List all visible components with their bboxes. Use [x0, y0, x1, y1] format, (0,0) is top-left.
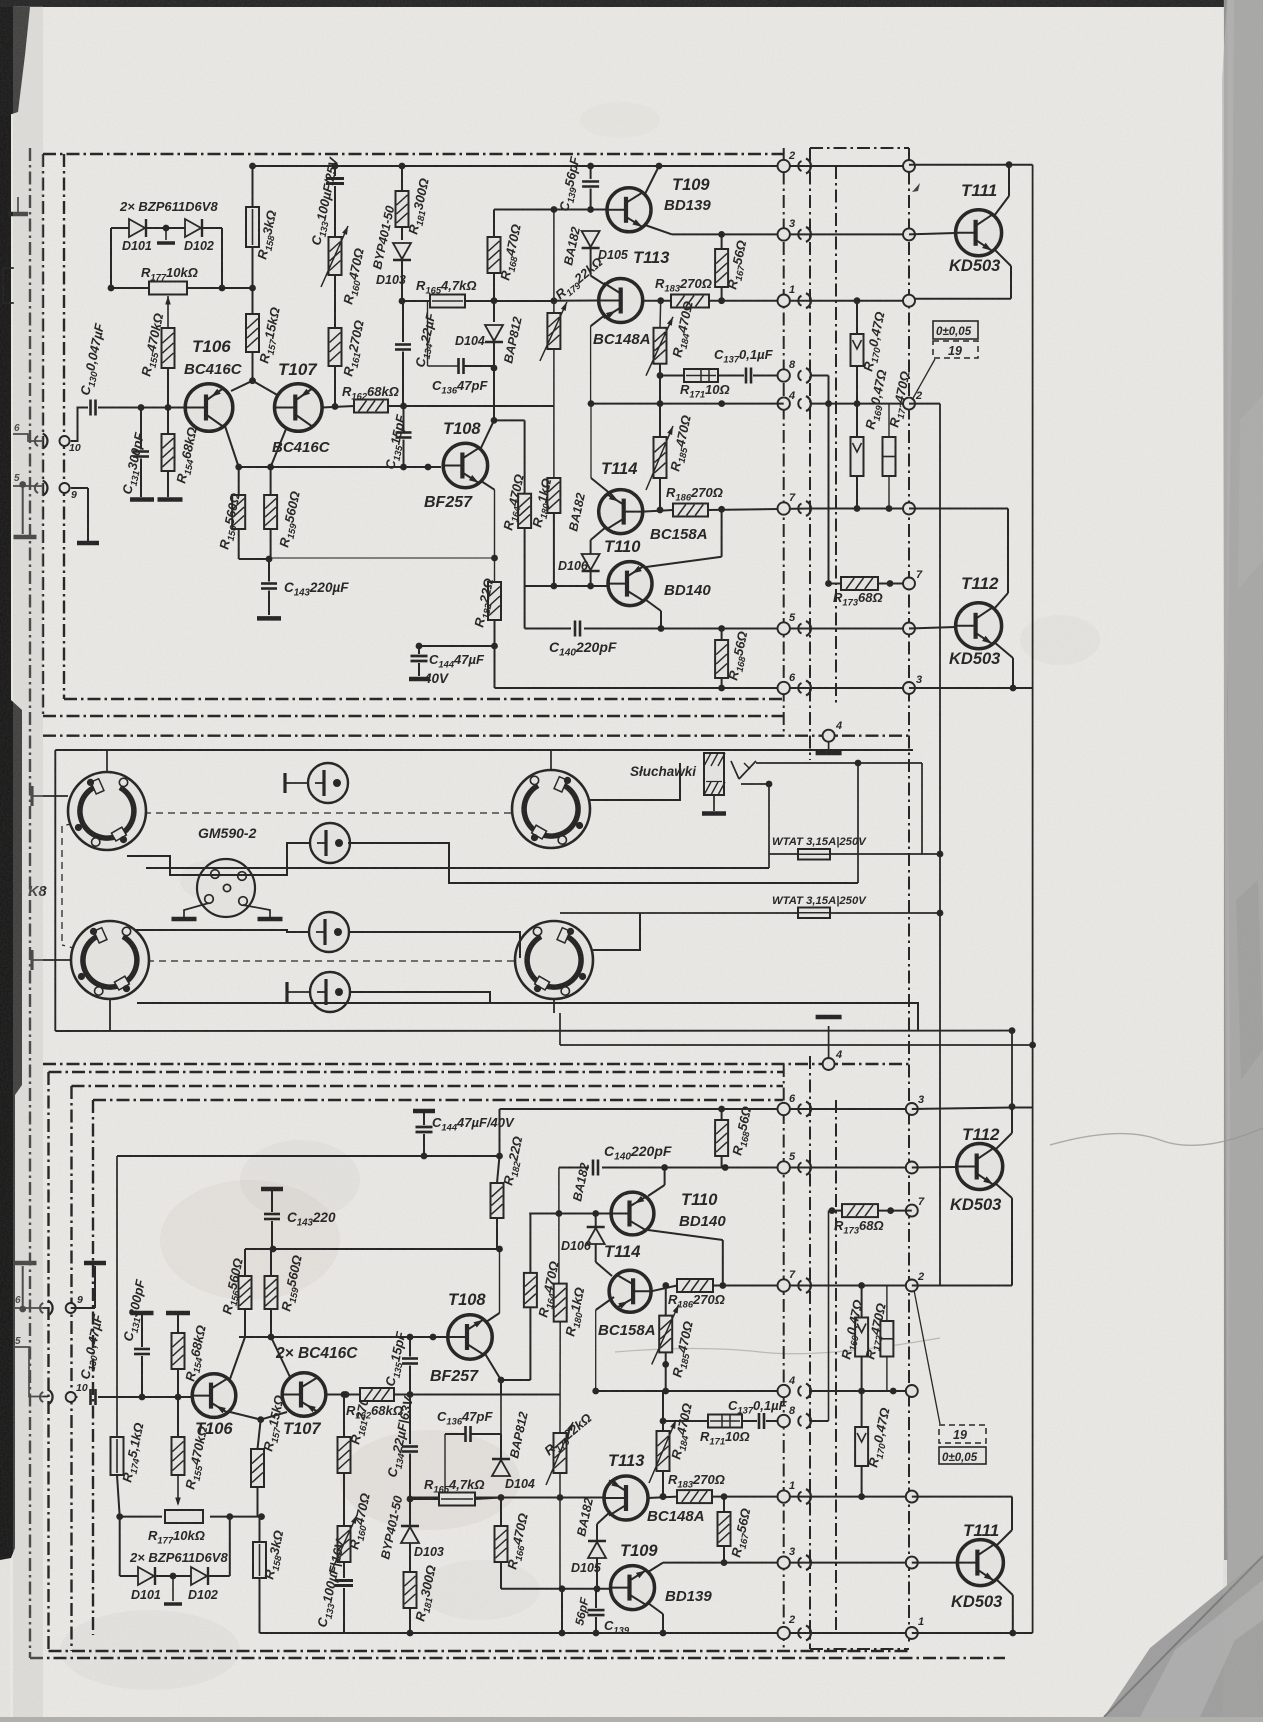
resistor R186 270 bottom [677, 1279, 713, 1292]
wire R177 left to D101 [111, 287, 149, 289]
row1 wire bottom right part [810, 1496, 909, 1498]
wire rows to open circles [810, 165, 909, 167]
emitter bus to T108 base [239, 466, 441, 468]
transistor T108 BF257 [443, 443, 487, 487]
diode D105 BA182 [582, 231, 600, 247]
transistor T111 KD503 bottom [957, 1540, 1003, 1586]
paper crease middle right [1050, 1128, 1263, 1145]
wire R156 R159 junction [239, 558, 271, 560]
resistor R156 560 bottom [239, 1276, 252, 1309]
wire T113 base row [554, 300, 599, 302]
resistor R165 4.7k bottom [439, 1493, 475, 1506]
row 1 pins [778, 295, 790, 307]
wire D104 node to T108b collector [500, 1395, 502, 1435]
row 6 pins [778, 682, 790, 694]
resistor R158 3k [252, 247, 254, 314]
row3 bottom right part [810, 1562, 909, 1564]
open circles bottom [906, 1103, 918, 1115]
wire D102 to R177 right [203, 227, 222, 229]
wire T114b collector [651, 1286, 677, 1292]
speaker bus vertical x940 [939, 404, 941, 1286]
wire R162b node [410, 1394, 560, 1396]
diode D106 bottom [595, 1214, 597, 1227]
tolerance box 19 bottom [939, 1425, 986, 1443]
wire DIN3 to jack row [590, 763, 680, 800]
zener D101 bottom [119, 1517, 121, 1576]
wire pin9b lead-in [14, 1307, 49, 1309]
resistor R158 3k bottom [253, 1542, 266, 1578]
wire T107 emitter [271, 429, 286, 467]
row6 corner bottom [499, 1109, 501, 1156]
DIN 5pin connector GM590-2 [197, 859, 255, 917]
ground pin9b right [84, 1261, 106, 1266]
wire R162 to node [388, 405, 555, 407]
capacitor C133 100uF 25V [332, 163, 339, 170]
potentiometer R177 10k bottom [165, 1510, 203, 1523]
wire R157 to T106 collector node [252, 352, 254, 381]
row 4 wire bottom [596, 1390, 784, 1392]
transistor T109 BD139 bottom [611, 1566, 655, 1610]
wire row2 to right bus [909, 164, 1033, 166]
capacitor C140 220pF [574, 621, 577, 637]
wire C144 row bottom [117, 1155, 500, 1157]
capacitor C137 0.1uF bottom [742, 1420, 757, 1422]
pin 3 row wire [672, 233, 810, 235]
wire T112b base [912, 1166, 957, 1169]
phono connector 3 [309, 912, 349, 952]
resistor R172 470 bottom [880, 1321, 893, 1357]
wire T109 base feed [494, 209, 606, 211]
trimmer R185 470 bottom [659, 1316, 672, 1353]
wire C143 node to R182 [269, 557, 495, 559]
row 4 wire [591, 403, 784, 405]
resistor R167 56 [715, 249, 728, 287]
wire R164b link [501, 1379, 530, 1381]
capacitor C133 bottom 100uF/16V [343, 1562, 345, 1578]
resistor R169 0.47 bottom [855, 1318, 868, 1357]
bottom channel frame outer [43, 1063, 909, 1065]
resistor R182 22 bottom [491, 1183, 504, 1218]
diode D103 BYP401-50 [399, 163, 406, 170]
wire jack ring down [768, 784, 770, 868]
wiper arrow R155 into R177 [167, 296, 169, 328]
wire T106b emitter join [230, 1337, 245, 1379]
input wire bottom [98, 1396, 192, 1398]
resistor R159 560 bottom [265, 1276, 278, 1309]
top channel module bottom dash-dot with pin 4 [43, 735, 909, 737]
resistor R167 56 bottom [718, 1512, 731, 1546]
wire base row bottom R165 T113 [410, 1497, 604, 1499]
capacitor C134 22uF [402, 301, 404, 342]
capacitor C131 bottom 300pF [131, 1311, 154, 1316]
wire DIN2 to phono3 [134, 930, 309, 932]
wire T111 emitter loop [994, 249, 1011, 266]
resistor R183 270 [671, 295, 709, 308]
capacitor C130 0.047uF [89, 400, 92, 416]
row 4 pins [778, 397, 790, 409]
scanner black left strip [0, 7, 22, 1560]
wire R171 to C137 [718, 375, 744, 377]
resistor R180 1k [547, 478, 560, 513]
row 3 pins [778, 228, 790, 240]
row 5 wire / C140 [524, 586, 526, 629]
wire T114 collector to R186 [643, 510, 673, 512]
wire R183 to pin1 [709, 300, 810, 302]
ground pin9 right [77, 541, 99, 546]
resistor R173 68 bottom [829, 1207, 836, 1214]
DIN speaker socket right bottom [515, 921, 593, 999]
wire T114 base from row4 [590, 404, 592, 478]
capacitor C143 220uF [268, 559, 270, 582]
transistor T112 KD503 top [956, 603, 1002, 649]
ground left of pin9 [19, 481, 26, 488]
row 5 pins [778, 622, 790, 634]
bottom right page fold [1104, 1556, 1263, 1717]
GM590 ground leg left [184, 903, 209, 917]
wire T112 base [909, 627, 956, 629]
capacitor C136 47pF [427, 301, 429, 366]
supply rail top [253, 165, 811, 167]
transistor T109 BD139 [607, 188, 651, 232]
capacitor C137 0.1uF [745, 368, 748, 384]
wire phono4 run [349, 992, 490, 1003]
resistor R181 300 [396, 191, 409, 227]
wire pin10b [71, 1396, 78, 1398]
right page edge gray band [1227, 0, 1263, 1717]
emitter join to R157 bottom [230, 1412, 261, 1420]
resistor R157 15k [246, 314, 259, 352]
capacitor C131 300pF [140, 408, 142, 450]
wire R164 corner [524, 528, 526, 586]
resistor R186 270 [673, 504, 708, 517]
wire T110 emitter [646, 600, 661, 611]
DIN speaker socket right top [512, 770, 590, 848]
stub bar phono4 [285, 982, 288, 1002]
stub bar DIN left top [30, 786, 33, 806]
wire T108b base bus [239, 1336, 448, 1338]
transistor T107 BC416C [275, 384, 323, 432]
row 5 wire bottom C140 [559, 1167, 589, 1169]
resistor R170 0.47 [851, 334, 864, 366]
resistor R154 68k bottom [166, 1311, 190, 1316]
zener diode D102 [185, 219, 201, 237]
resistor R168 470 [488, 237, 501, 273]
wire T109b emitter [648, 1603, 663, 1614]
row3 bottom to bus [912, 1108, 1012, 1110]
resistor R161 270 bottom [338, 1437, 351, 1473]
connector column dash-dot borders [783, 148, 785, 736]
diode D103 bottom [409, 1499, 411, 1525]
wire T110b base [529, 1213, 611, 1215]
resistor R183 270 bottom [677, 1490, 712, 1503]
diode D106 BA182 [582, 554, 600, 570]
wire pin10 to C130 [71, 408, 88, 442]
resistor R156 560 [232, 495, 245, 529]
wire T108b emitter [486, 1313, 500, 1322]
stub bar phono1 [283, 773, 286, 793]
wire T108b collector [484, 1352, 501, 1380]
resistor R154 68k [167, 408, 169, 435]
diode D103 symbol [393, 243, 411, 259]
left margin connector fragment [3, 268, 14, 303]
wire pin8 to R173 branch [810, 375, 829, 377]
ground left of pin9 bottom [19, 1306, 26, 1313]
row5 bottom right part [810, 1167, 909, 1169]
wire T112b emitter [995, 1183, 1012, 1198]
wire T107b collector [326, 1394, 360, 1396]
DIN speaker socket left bottom [71, 921, 149, 999]
wire T106 emitter [225, 426, 239, 467]
connector pin 10 [60, 436, 70, 446]
left margin shading [13, 6, 43, 1717]
row2 bottom right part [784, 1632, 909, 1634]
left long wire bottom channel [116, 1156, 118, 1437]
trimmer R160 470 bottom [338, 1526, 351, 1562]
wire T111b collector [996, 1530, 1012, 1546]
wire T110 base [525, 585, 608, 587]
resistor R166 470 bottom [495, 1526, 508, 1562]
capacitor C139 56pF bottom [561, 1589, 563, 1633]
transistor T108 BF257 bottom [448, 1315, 492, 1359]
wire DIN1 to phono2 area [127, 843, 310, 875]
phono connector 4 [310, 972, 350, 1012]
pin 4 supply entry bottom [823, 1058, 835, 1070]
rail bottom [260, 1632, 811, 1634]
GM590 ground leg right [243, 905, 270, 917]
wire T113 collector to R183 [643, 300, 671, 302]
resistor R180 1k bottom [554, 1284, 567, 1322]
wire T110b emitter [648, 1185, 665, 1196]
wire R186 to pin7 [708, 509, 810, 511]
wire R182 bottom [494, 620, 496, 688]
wire T112b collector [995, 1133, 1012, 1150]
pins bottom rows [778, 1103, 790, 1115]
diode D104 BAP812 [493, 301, 495, 322]
zener D102 bottom [191, 1567, 207, 1585]
wire T112 emitter [994, 642, 1013, 658]
row 6 wire bottom [500, 1108, 811, 1110]
transistor T110 BD140 [608, 562, 652, 606]
zener diode D101 [111, 227, 129, 229]
resistor R171 10 bottom [708, 1415, 742, 1428]
transistor T106 bottom [192, 1374, 236, 1418]
connector column dash-dot borders bottom [783, 1064, 785, 1649]
wire pin10b lead-in [14, 1347, 48, 1397]
capacitor C144 47uF 40V [419, 645, 495, 647]
input line pin 10 lead-in [13, 434, 44, 441]
pin 4 supply entry top [823, 730, 835, 742]
tolerance box 19 top [933, 321, 978, 339]
DIN speaker socket left top [68, 772, 146, 850]
wire pin9 to ground [71, 487, 88, 489]
resistor R155 470k [167, 368, 169, 408]
trimmer R185 470 [654, 437, 667, 478]
wire T113b collector [648, 1497, 677, 1498]
row 2 pins [778, 160, 790, 172]
wire DIN4 to fuse2 [593, 913, 640, 950]
transistor T110 BD140 bottom [611, 1192, 654, 1235]
wire T111b emitter [996, 1579, 1013, 1595]
connector pin 9 bottom [66, 1303, 76, 1313]
row6 bottom right part [810, 1108, 909, 1110]
wire T109b collector [648, 1563, 663, 1572]
resistor R170 0.47 bottom [855, 1427, 868, 1466]
trimmer R184 470 bottom [657, 1431, 670, 1471]
capacitor C136 47pF bottom [464, 1426, 467, 1442]
transistor T106 BC416C [185, 384, 233, 432]
trimmer R160 470 [329, 237, 342, 275]
diode D104 bottom [498, 1494, 505, 1501]
wire pin9 lead-in [13, 485, 44, 487]
open circle col top channel [903, 160, 915, 172]
bottom channel module bottom dash-dot [30, 1657, 1005, 1659]
resistor R182 22 [488, 582, 501, 620]
mechanical dashed link vertical [61, 826, 63, 945]
capacitor C135 15pF [403, 406, 405, 430]
rows 4 and 8 bottom right [810, 1420, 829, 1422]
row 8 pins [778, 369, 790, 381]
pin 8 row wire [660, 375, 684, 377]
resistor R169 0.47 [851, 437, 864, 476]
row 7 pins [778, 502, 790, 514]
resistor R164 470 bottom [524, 1273, 537, 1307]
wire T113 emitter [591, 315, 606, 326]
black top-left corner wedge [0, 7, 30, 118]
wire DIN2 lower to long run [137, 1003, 918, 1031]
trimmer R179 22k [553, 210, 555, 314]
wiper arrow R155b [177, 1475, 179, 1504]
wire T114b base link [596, 1297, 614, 1310]
connector pin 10 bottom [66, 1392, 76, 1402]
wire T110 collector [646, 557, 722, 567]
capacitor C140 220pF bottom [592, 1160, 595, 1176]
row 3 wire bottom [663, 1562, 810, 1564]
capacitor C135 15pF bottom [402, 1357, 418, 1360]
zener center tap bottom [156, 1575, 191, 1577]
wire T114 emitter to D106 [591, 527, 606, 540]
wire T112 collector [909, 508, 1008, 510]
pin8 row bottom [663, 1420, 708, 1422]
transistor T112 KD503 bottom [957, 1144, 1003, 1190]
wire T108 collector [480, 420, 494, 450]
wire C140 left to R180 bottom [558, 1168, 560, 1284]
wire T109 collector to rail [645, 166, 659, 194]
right bus x1012 to bottom T112 [1011, 1031, 1013, 1107]
wire R184 to pin8 row [659, 364, 661, 404]
bottom channel frame inner [93, 1099, 783, 1101]
zener pair center tap [147, 227, 185, 229]
transistor T114 BC158A bottom [609, 1270, 651, 1312]
bottom channel frame mid [72, 1085, 784, 1087]
wire R173 branch bottom [810, 1420, 829, 1422]
capacitor C134 22uF bottom [409, 1395, 411, 1445]
wire input node [98, 407, 186, 409]
resistor R155 470k bottom [172, 1437, 185, 1475]
wire R177b row [120, 1516, 162, 1518]
resistor R157 15k bottom [251, 1449, 264, 1487]
wire T108 collector node link [494, 419, 525, 421]
wire T108 emitter [481, 481, 495, 490]
wire R173b to open7 [903, 1210, 912, 1212]
phono connector 1 [308, 763, 348, 803]
wire collector cross to T107 base [231, 381, 253, 391]
right long bus x1032 [1032, 165, 1034, 1633]
resistor R165 4.7k [430, 295, 465, 308]
pen mark [912, 183, 920, 192]
top channel frame outer [43, 153, 783, 155]
wire jack tip to fuse column [756, 762, 922, 764]
wire crossing to bottom channel A [560, 1044, 1033, 1046]
top channel frame inner [63, 154, 65, 699]
row2 bottom to bus corner [912, 1632, 1033, 1634]
module boundary dash-dot left [29, 148, 31, 1658]
ground pin4 bottom [816, 1015, 842, 1020]
jack switch lever [731, 761, 739, 779]
wire phono2 to jack branch [348, 843, 858, 883]
resistor R174 5.1k bottom [111, 1437, 124, 1475]
resistor R161 270 [334, 275, 336, 328]
wire D105 to T113 collector [591, 276, 608, 287]
resistor R162 68k bottom [360, 1388, 394, 1401]
connector box bottom dash-dot [810, 1648, 909, 1650]
stub bar DIN left bottom [30, 950, 33, 970]
wire DIN1 lower pin run [146, 867, 769, 869]
transistor T107 bottom [282, 1373, 326, 1417]
ground pin4 top [828, 741, 830, 751]
wire T109b base row [501, 1588, 630, 1590]
middle section solid box [55, 749, 913, 751]
wire T107b emitter join [271, 1337, 290, 1377]
trimmer R184 470 [659, 301, 662, 328]
transistor T113 BC148A bottom [604, 1476, 648, 1520]
wire phono3 step [349, 932, 520, 958]
wire jack column to fuse1 [921, 763, 923, 854]
transistor T111 KD503 top [956, 210, 1002, 256]
transistor T113 BC148A [599, 279, 643, 323]
capacitor C130 bottom [89, 1389, 92, 1405]
left margin stub upper [17, 197, 19, 212]
scanner dark top edge [0, 0, 1263, 7]
resistor R164 470 [518, 494, 531, 528]
wire T109 emitter to pin3 row [645, 225, 672, 234]
phono connector 2 [310, 823, 350, 863]
wire D106b to T114b emitter [595, 1244, 597, 1262]
resistor R162 68k [354, 400, 388, 413]
diode D105 bottom [588, 1542, 606, 1558]
connector pin 9 [60, 483, 70, 493]
wire circle2 to bus right [909, 403, 940, 405]
resistor R173 68 [829, 583, 842, 585]
capacitor C144 bottom 47uF/40V [413, 1109, 435, 1114]
capacitor C139 56pF [587, 163, 594, 170]
wire y1249 row [245, 1248, 500, 1250]
wire T111b base [912, 1562, 958, 1564]
resistor R172 470 [883, 437, 896, 476]
transistor T114 BC158A [599, 490, 643, 534]
resistor R159 560 [264, 495, 277, 529]
wire R158 top to rail [252, 166, 254, 207]
wire T111 base [909, 233, 956, 234]
wire T113b emitter to D105 [597, 1512, 610, 1524]
resistor R171 10 [684, 369, 718, 382]
trimmer R179 22k bottom [554, 1433, 567, 1473]
resistor R181 300 bottom [404, 1572, 417, 1608]
mechanical dashed link lower [123, 960, 517, 962]
capacitor C143 220 bottom [261, 1187, 283, 1192]
resistor R168b 56 [715, 640, 728, 678]
row7 wire bottom right part [810, 1285, 909, 1287]
wire R177 right [187, 287, 253, 289]
